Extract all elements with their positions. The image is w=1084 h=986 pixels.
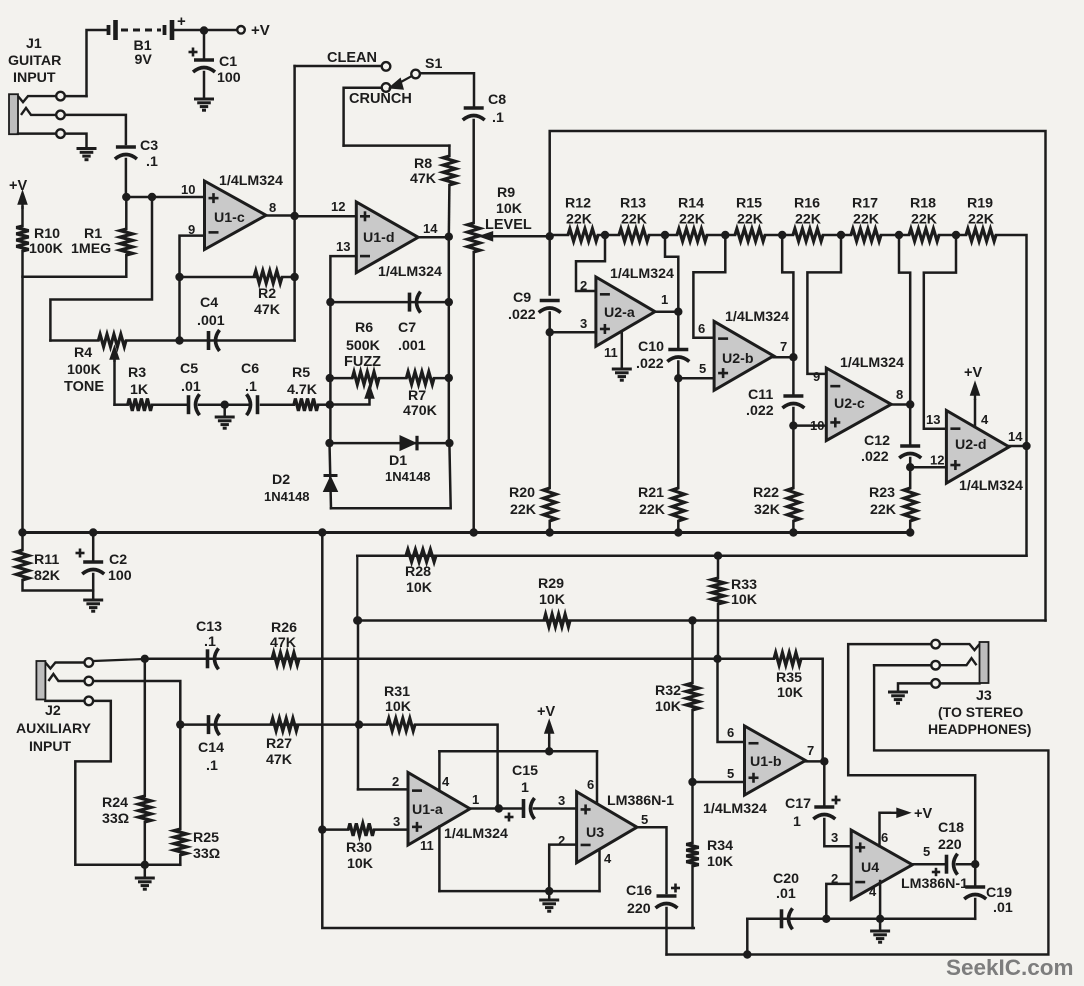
battery B1 bbox=[109, 20, 173, 40]
wire U1-d output bbox=[418, 236, 449, 239]
svg-text:R2: R2 bbox=[258, 286, 276, 302]
svg-text:R27: R27 bbox=[266, 736, 292, 752]
svg-text:5: 5 bbox=[699, 361, 706, 376]
svg-text:22K: 22K bbox=[679, 212, 706, 228]
capacitor C19 bbox=[964, 887, 986, 899]
capacitor C14 bbox=[209, 714, 220, 735]
wire R1 bottom to R10 rail bbox=[23, 255, 127, 277]
svg-text:7: 7 bbox=[780, 339, 787, 354]
svg-text:10K: 10K bbox=[731, 592, 758, 608]
wire C9 node to pin3 bbox=[550, 331, 596, 334]
svg-text:R26: R26 bbox=[271, 620, 297, 636]
svg-text:1/4LM324: 1/4LM324 bbox=[703, 801, 767, 817]
wire R8 to output bbox=[448, 185, 451, 237]
svg-text:C2: C2 bbox=[109, 552, 127, 568]
plus sign C1 bbox=[189, 48, 198, 57]
wire U2-d output down bbox=[357, 446, 1026, 556]
wire C4 segment bbox=[180, 339, 295, 342]
capacitor C4 bbox=[209, 330, 220, 351]
capacitor C5 bbox=[189, 394, 200, 415]
wire C6 to R5 bbox=[261, 403, 294, 406]
svg-text:10K: 10K bbox=[655, 699, 682, 715]
svg-text:R31: R31 bbox=[384, 684, 410, 700]
wire R33 bottom seg bbox=[717, 604, 720, 658]
svg-text:.1: .1 bbox=[492, 110, 504, 126]
svg-text:R12: R12 bbox=[565, 196, 591, 212]
svg-text:.1: .1 bbox=[245, 379, 257, 395]
wire C2 bottom bbox=[92, 574, 95, 598]
svg-text:R32: R32 bbox=[655, 683, 681, 699]
wire R6 wiper loop bbox=[330, 398, 370, 405]
svg-text:1: 1 bbox=[661, 292, 668, 307]
resistor R17 bbox=[851, 229, 881, 241]
svg-text:10: 10 bbox=[181, 182, 195, 197]
svg-text:R16: R16 bbox=[794, 196, 820, 212]
svg-text:33Ω: 33Ω bbox=[102, 811, 129, 827]
resistor R11 bbox=[16, 550, 28, 580]
svg-text:C4: C4 bbox=[200, 295, 218, 311]
node bottom bus bbox=[743, 950, 751, 958]
svg-text:1MEG: 1MEG bbox=[71, 241, 111, 257]
wire ladder seg after R16 bbox=[823, 234, 841, 237]
ground J1 sleeve bbox=[77, 149, 97, 160]
wire R3 left bbox=[115, 403, 128, 406]
svg-text:C8: C8 bbox=[488, 92, 506, 108]
wire input node to U1-c pin 10 bbox=[126, 196, 204, 199]
svg-text:U1-c: U1-c bbox=[214, 210, 245, 226]
wire ladder seg after R15 bbox=[765, 234, 782, 237]
node R30 left bbox=[318, 825, 326, 833]
wire ladder seg before R14 bbox=[665, 234, 677, 237]
wire R33 top seg bbox=[717, 556, 720, 578]
svg-text:C11: C11 bbox=[748, 387, 773, 403]
jack J2 body bbox=[36, 661, 45, 700]
resistor R30 bbox=[348, 823, 374, 835]
svg-text:1N4148: 1N4148 bbox=[264, 489, 310, 504]
wire U2-a pin11 ground bbox=[621, 332, 624, 368]
resistor R1 bbox=[120, 229, 132, 255]
node R2 right bbox=[290, 273, 298, 281]
svg-text:22K: 22K bbox=[621, 212, 648, 228]
svg-text:R9: R9 bbox=[497, 185, 515, 201]
wire crunch horizontal bbox=[344, 144, 450, 147]
svg-text:4: 4 bbox=[442, 774, 450, 789]
bus left channel bbox=[145, 658, 774, 661]
resistor R29 bbox=[544, 614, 570, 626]
wire +V to R10 bbox=[21, 207, 24, 226]
resistor R34 bbox=[686, 843, 698, 866]
svg-text:U2-d: U2-d bbox=[955, 437, 987, 453]
wire R2 left segment bbox=[180, 276, 256, 279]
wire U1-d pin13 loop bbox=[330, 256, 356, 302]
wire D2 vertical bbox=[330, 443, 332, 508]
wire U2-a output bbox=[655, 310, 678, 313]
node C14 junction bbox=[176, 720, 184, 728]
wire R32 bottom seg bbox=[691, 710, 694, 782]
arrow +V U4 bbox=[888, 809, 908, 816]
svg-text:14: 14 bbox=[423, 221, 438, 236]
node U2-c output bbox=[906, 400, 914, 408]
bus filter output bbox=[356, 556, 358, 621]
wire C5 to C6 bbox=[199, 403, 248, 406]
jack J3 body bbox=[980, 642, 989, 683]
wire R30 right seg bbox=[374, 828, 408, 831]
op-amp U1-d bbox=[356, 202, 418, 273]
plus sign C16 bbox=[671, 884, 680, 893]
jack J3 tip terminal bbox=[931, 640, 940, 649]
node ladder junction R13 bbox=[661, 231, 669, 239]
svg-text:C15: C15 bbox=[512, 763, 538, 779]
wire ladder seg before R19 bbox=[956, 234, 966, 237]
op-amp U1-c bbox=[205, 181, 267, 250]
svg-text:10K: 10K bbox=[539, 592, 566, 608]
wire R10 down to Vref bus bbox=[21, 251, 24, 533]
svg-text:22K: 22K bbox=[968, 212, 995, 228]
svg-text:R24: R24 bbox=[102, 795, 128, 811]
svg-text:R10: R10 bbox=[34, 226, 60, 242]
wire C10 to pin5 node bbox=[677, 362, 680, 379]
svg-text:U3: U3 bbox=[586, 825, 604, 841]
wire j3 loop to U2-b pin6 bbox=[693, 235, 725, 338]
resistor R35 bbox=[774, 653, 801, 665]
wire pin5 wire bbox=[678, 377, 714, 380]
box top rail bbox=[439, 750, 597, 753]
wire j2 loop to output bbox=[665, 235, 678, 312]
svg-text:C12: C12 bbox=[864, 433, 890, 449]
svg-text:47K: 47K bbox=[410, 171, 437, 187]
wire R23 bottom bbox=[909, 521, 912, 532]
resistor R12 bbox=[568, 229, 598, 241]
svg-text:9: 9 bbox=[813, 369, 820, 384]
jack J2 tip wire bbox=[93, 659, 145, 661]
svg-text:U2-a: U2-a bbox=[604, 305, 635, 321]
svg-text:4.7K: 4.7K bbox=[287, 382, 318, 398]
svg-text:100: 100 bbox=[108, 568, 132, 584]
svg-text:U1-b: U1-b bbox=[750, 754, 782, 770]
arrow +V box bbox=[546, 722, 553, 738]
switch S1 crunch contact bbox=[382, 83, 391, 92]
wire R7 right seg bbox=[434, 377, 449, 380]
svg-text:3: 3 bbox=[558, 793, 565, 808]
svg-text:100: 100 bbox=[217, 70, 241, 86]
wire C11 to pin10 node bbox=[792, 408, 795, 426]
svg-text:1/4LM324: 1/4LM324 bbox=[610, 266, 674, 282]
node Vref R21 bbox=[674, 528, 682, 536]
plus sign C15 bbox=[505, 813, 514, 822]
wire battery left to J1 tip bbox=[87, 30, 108, 96]
svg-text:3: 3 bbox=[831, 830, 838, 845]
resistor R20 bbox=[544, 488, 556, 521]
arrow R9 wiper bbox=[482, 233, 495, 240]
switch S1 common bbox=[411, 70, 420, 79]
ground tone network bbox=[215, 417, 235, 428]
switch S1 blade bbox=[391, 76, 412, 88]
svg-text:.022: .022 bbox=[861, 449, 889, 465]
wire R20 bottom bbox=[548, 521, 551, 532]
svg-text:1/4LM324: 1/4LM324 bbox=[959, 478, 1023, 494]
box right lower bbox=[598, 849, 601, 891]
svg-text:R20: R20 bbox=[509, 485, 535, 501]
svg-text:R18: R18 bbox=[910, 196, 936, 212]
svg-text:47K: 47K bbox=[270, 635, 297, 651]
switch S1 clean contact bbox=[382, 62, 391, 71]
svg-text:CRUNCH: CRUNCH bbox=[349, 91, 412, 107]
svg-text:.1: .1 bbox=[206, 758, 218, 774]
wire ladder seg before R18 bbox=[899, 234, 909, 237]
svg-text:.022: .022 bbox=[746, 403, 774, 419]
svg-text:9V: 9V bbox=[135, 52, 153, 68]
svg-text:LM386N-1: LM386N-1 bbox=[901, 876, 968, 892]
node C18 out bbox=[971, 860, 979, 868]
jack J1 ring contact bbox=[21, 108, 56, 115]
svg-text:C5: C5 bbox=[180, 361, 198, 377]
svg-text:.1: .1 bbox=[146, 154, 158, 170]
wire R25 bottom bbox=[179, 855, 182, 865]
op-amp U1-b bbox=[745, 726, 806, 795]
svg-text:22K: 22K bbox=[870, 502, 897, 518]
svg-text:R35: R35 bbox=[776, 670, 802, 686]
svg-text:D2: D2 bbox=[272, 472, 290, 488]
svg-text:22K: 22K bbox=[566, 212, 593, 228]
svg-text:33Ω: 33Ω bbox=[193, 846, 220, 862]
svg-text:R34: R34 bbox=[707, 838, 733, 854]
node C5 C6 ground bbox=[221, 401, 229, 409]
svg-text:R28: R28 bbox=[405, 564, 431, 580]
svg-text:7: 7 bbox=[807, 743, 814, 758]
arrow +V rail left bbox=[19, 193, 26, 209]
node U2-d output bbox=[1022, 442, 1030, 450]
node pin10 branch bbox=[148, 193, 156, 201]
resistor R31 bbox=[387, 718, 415, 730]
wire C2 top stub bbox=[92, 533, 95, 563]
resistor R23 bbox=[904, 488, 916, 521]
wire C16 bottom bbox=[665, 908, 668, 955]
wire C1 bottom bbox=[203, 72, 206, 98]
svg-text:8: 8 bbox=[269, 200, 276, 215]
svg-text:4: 4 bbox=[981, 412, 989, 427]
wire C1 top bbox=[203, 31, 206, 61]
wire j1 loop to U2-a pin2 bbox=[576, 235, 605, 291]
node ladder junction R14 bbox=[721, 231, 729, 239]
svg-text:1: 1 bbox=[521, 780, 529, 796]
wire ground stem tone bbox=[223, 405, 226, 415]
svg-text:100K: 100K bbox=[29, 241, 64, 257]
svg-text:+V: +V bbox=[9, 178, 27, 194]
svg-text:.01: .01 bbox=[993, 900, 1013, 916]
arrow +V U2-d bbox=[971, 384, 978, 400]
node box ground bbox=[545, 887, 553, 895]
svg-text:22K: 22K bbox=[911, 212, 938, 228]
node Vref R23 bbox=[906, 528, 914, 536]
wire clean bbox=[295, 65, 382, 68]
svg-text:.001: .001 bbox=[197, 313, 225, 329]
wire C17 bottom to U4 bbox=[824, 819, 851, 846]
svg-text:3: 3 bbox=[393, 814, 400, 829]
svg-text:22K: 22K bbox=[510, 502, 537, 518]
wire j4 loop to output bbox=[782, 235, 793, 357]
svg-text:SeekIC.com: SeekIC.com bbox=[946, 955, 1074, 980]
wire R1 top bbox=[125, 197, 128, 229]
svg-text:22K: 22K bbox=[795, 212, 822, 228]
wire R21 bottom bbox=[677, 521, 680, 532]
svg-text:C17: C17 bbox=[785, 796, 811, 812]
bus Vref rail bbox=[23, 531, 911, 534]
wire pin4 gnd stem bbox=[879, 919, 882, 929]
resistor R6 FUZZ pot bbox=[352, 372, 379, 384]
svg-text:5: 5 bbox=[727, 766, 734, 781]
jack J1 body bbox=[9, 94, 18, 134]
resistor R5 bbox=[294, 399, 318, 411]
svg-text:R15: R15 bbox=[736, 196, 762, 212]
svg-text:R30: R30 bbox=[346, 840, 372, 856]
wire U2-d output bbox=[1009, 445, 1026, 448]
svg-text:1: 1 bbox=[472, 792, 479, 807]
svg-text:1/4LM324: 1/4LM324 bbox=[378, 264, 442, 280]
jack J2 ring contact bbox=[48, 674, 84, 681]
svg-text:R11: R11 bbox=[34, 552, 59, 568]
node Vref R11 bbox=[18, 528, 26, 536]
node U2-a output bbox=[674, 308, 682, 316]
op-amp U4 bbox=[851, 830, 912, 899]
wire ladder seg before R15 bbox=[725, 234, 735, 237]
resistor R27 bbox=[271, 718, 298, 730]
svg-text:47K: 47K bbox=[266, 752, 293, 768]
svg-text:5: 5 bbox=[641, 812, 648, 827]
svg-text:220: 220 bbox=[938, 837, 962, 853]
svg-text:C14: C14 bbox=[198, 740, 224, 756]
jack J1 tip terminal bbox=[56, 92, 65, 101]
resistor R18 bbox=[909, 229, 939, 241]
wire pin12 node down R23 bbox=[909, 467, 912, 488]
svg-text:C13: C13 bbox=[196, 619, 222, 635]
svg-text:HEADPHONES): HEADPHONES) bbox=[928, 721, 1031, 737]
svg-text:+: + bbox=[177, 13, 186, 30]
resistor R10 bbox=[16, 226, 28, 251]
svg-text:22K: 22K bbox=[737, 212, 764, 228]
capacitor C18 bbox=[947, 854, 958, 875]
wire pin12 wire bbox=[910, 466, 946, 469]
svg-text:C19: C19 bbox=[986, 885, 1012, 901]
node ladder junction R16 bbox=[837, 231, 845, 239]
wire C15 left seg bbox=[499, 807, 521, 810]
wire U1-c output bbox=[266, 214, 295, 217]
wire C8 to R9 bbox=[472, 120, 475, 223]
jack J2 tip terminal bbox=[85, 658, 94, 667]
jack J3 tip contact bbox=[940, 644, 979, 650]
svg-text:8: 8 bbox=[896, 387, 903, 402]
wire ladder seg before R13 bbox=[605, 234, 619, 237]
svg-text:C1: C1 bbox=[219, 54, 237, 70]
wire fuzz left vertical bbox=[329, 302, 332, 443]
wire U1-c pin 9 feedback bbox=[180, 236, 205, 277]
svg-text:R19: R19 bbox=[967, 196, 993, 212]
svg-text:R13: R13 bbox=[620, 196, 646, 212]
op-amp U1-a bbox=[408, 773, 470, 846]
node D1 left bbox=[325, 439, 333, 447]
wire J3 sleeve bbox=[898, 683, 931, 690]
svg-text:U4: U4 bbox=[861, 860, 879, 876]
wire C18 right bbox=[957, 863, 975, 866]
wire R11 bottom bbox=[23, 580, 94, 591]
svg-text:500K: 500K bbox=[346, 338, 381, 354]
node R32 top bbox=[688, 616, 696, 624]
jack J1 tip contact bbox=[18, 96, 56, 102]
capacitor C9 bbox=[539, 301, 561, 313]
node U2-d pin12 bbox=[906, 463, 914, 471]
wire pin2 horizontal bbox=[358, 788, 408, 791]
svg-text:R14: R14 bbox=[678, 196, 704, 212]
resistor R16 bbox=[793, 229, 823, 241]
wire R9 wiper to filter bbox=[495, 235, 550, 238]
svg-text:R1: R1 bbox=[84, 226, 102, 242]
wire R24 top bbox=[144, 659, 147, 796]
wire main signal down bbox=[321, 533, 324, 830]
svg-text:(TO STEREO: (TO STEREO bbox=[938, 704, 1023, 720]
resistor R33 bbox=[712, 578, 724, 604]
node U1-b pin6 takeoff bbox=[713, 655, 721, 663]
svg-text:100K: 100K bbox=[67, 362, 102, 378]
wire pin10 step down bbox=[50, 197, 152, 341]
svg-text:C10: C10 bbox=[638, 339, 664, 355]
plus sign C2 bbox=[76, 549, 85, 558]
node C3 R1 junction bbox=[122, 193, 130, 201]
wire R3 to C5 bbox=[152, 403, 186, 406]
node filter input bbox=[546, 232, 554, 240]
svg-text:12: 12 bbox=[331, 199, 345, 214]
svg-text:R23: R23 bbox=[869, 485, 895, 501]
node R4 C4 junction bbox=[175, 336, 183, 344]
node R2 left bbox=[175, 273, 183, 281]
svg-text:D1: D1 bbox=[389, 453, 407, 469]
svg-text:+V: +V bbox=[537, 704, 555, 720]
resistor R2 bbox=[254, 271, 282, 283]
node R33 top bbox=[714, 552, 722, 560]
svg-text:2: 2 bbox=[392, 774, 399, 789]
svg-text:U2-b: U2-b bbox=[722, 351, 754, 367]
node pin3 takeoff bbox=[546, 328, 554, 336]
node J2 tip C13 R24 bbox=[141, 655, 149, 663]
node J2 ground bbox=[141, 861, 149, 869]
svg-text:4: 4 bbox=[869, 884, 877, 899]
box right upper bbox=[596, 751, 599, 803]
svg-text:1/4LM324: 1/4LM324 bbox=[840, 355, 904, 371]
capacitor C17 bbox=[813, 807, 835, 819]
svg-text:J2: J2 bbox=[45, 703, 61, 719]
wire U3 output bbox=[637, 827, 667, 893]
bus bottom rail bbox=[667, 665, 1049, 954]
diode D2 bbox=[324, 476, 338, 492]
svg-text:C9: C9 bbox=[513, 290, 531, 306]
resistor R3 bbox=[128, 399, 152, 411]
node C7 left bbox=[326, 298, 334, 306]
svg-text:12: 12 bbox=[930, 453, 944, 468]
svg-text:R7: R7 bbox=[408, 388, 426, 404]
wire R28 right seg bbox=[436, 554, 718, 557]
capacitor C15 bbox=[524, 798, 535, 819]
wire ladder seg before R16 bbox=[782, 234, 793, 237]
svg-text:13: 13 bbox=[336, 239, 350, 254]
wire ground bottom seg bbox=[145, 864, 181, 867]
node pin4 gnd bbox=[876, 915, 884, 923]
node U2-b pin5 bbox=[674, 374, 682, 382]
node +V box bbox=[545, 747, 553, 755]
svg-text:R4: R4 bbox=[74, 345, 92, 361]
wire U1-b output bbox=[806, 760, 825, 763]
wire R35 right bbox=[801, 659, 823, 762]
node Vref R22 bbox=[789, 528, 797, 536]
svg-text:C20: C20 bbox=[773, 871, 799, 887]
wire J1 sleeve to ground bbox=[65, 134, 86, 147]
